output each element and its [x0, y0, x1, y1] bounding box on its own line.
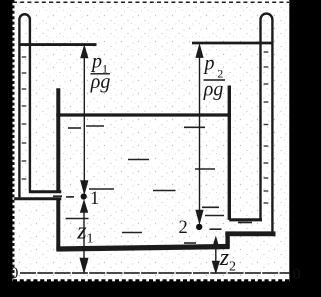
svg-text:2: 2: [179, 218, 188, 238]
svg-text:0: 0: [293, 266, 301, 283]
svg-text:1: 1: [90, 189, 99, 209]
svg-text:1: 1: [87, 232, 94, 247]
svg-text:ρg: ρg: [203, 78, 224, 100]
svg-text:2: 2: [229, 259, 236, 274]
svg-text:ρg: ρg: [90, 71, 111, 93]
svg-text:0: 0: [10, 265, 18, 282]
svg-text:p: p: [90, 50, 102, 72]
svg-text:p: p: [203, 53, 215, 75]
